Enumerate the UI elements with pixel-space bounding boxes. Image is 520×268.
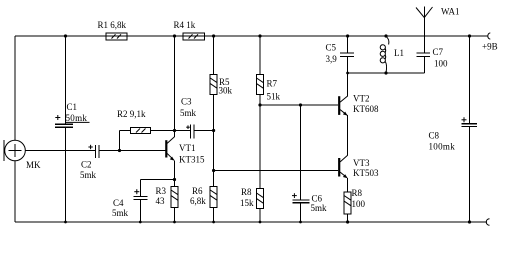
svg-text:51k: 51k [267, 92, 281, 102]
svg-text:+9B: +9B [482, 42, 498, 52]
svg-text:100: 100 [352, 199, 366, 209]
svg-text:5mk: 5mk [80, 170, 97, 180]
svg-text:C8: C8 [429, 131, 440, 141]
svg-text:3,9: 3,9 [326, 54, 338, 64]
svg-text:6,8k: 6,8k [190, 196, 206, 206]
svg-text:R8: R8 [352, 188, 363, 198]
svg-text:100mk: 100mk [429, 142, 456, 152]
svg-text:R6: R6 [192, 186, 203, 196]
svg-text:L1: L1 [394, 48, 404, 58]
svg-text:VT1: VT1 [179, 143, 196, 153]
svg-text:C2: C2 [81, 160, 92, 170]
svg-text:30k: 30k [219, 86, 233, 96]
svg-text:KT503: KT503 [353, 168, 379, 178]
svg-text:5mk: 5mk [180, 108, 197, 118]
svg-text:MK: MK [26, 160, 41, 170]
svg-text:R4 1k: R4 1k [174, 20, 196, 30]
svg-text:C5: C5 [326, 43, 337, 53]
svg-text:VT3: VT3 [353, 158, 370, 168]
svg-text:C1: C1 [67, 102, 78, 112]
svg-text:C6: C6 [312, 193, 323, 203]
svg-text:C7: C7 [433, 47, 444, 57]
svg-text:R3: R3 [156, 186, 167, 196]
svg-text:KT315: KT315 [179, 155, 205, 165]
svg-text:5mk: 5mk [112, 208, 129, 218]
svg-text:WA1: WA1 [441, 7, 460, 17]
svg-text:43: 43 [156, 196, 166, 206]
svg-text:100: 100 [434, 59, 448, 69]
svg-text:R1 6,8k: R1 6,8k [98, 20, 127, 30]
svg-text:KT608: KT608 [353, 104, 379, 114]
svg-text:C3: C3 [181, 97, 192, 107]
svg-text:50mk: 50mk [66, 113, 88, 123]
svg-text:R7: R7 [267, 79, 278, 89]
svg-text:5mk: 5mk [311, 203, 328, 213]
svg-text:C4: C4 [113, 198, 124, 208]
svg-text:15k: 15k [240, 198, 254, 208]
svg-text:R2 9,1k: R2 9,1k [117, 109, 146, 119]
svg-text:VT2: VT2 [353, 94, 370, 104]
svg-text:R8: R8 [241, 187, 252, 197]
